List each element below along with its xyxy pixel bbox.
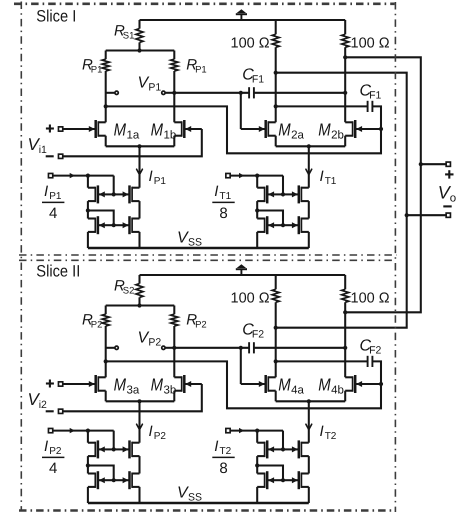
capacitor C_F1 left xyxy=(248,87,250,98)
wire M2a drain to cap C_F1 right xyxy=(274,104,278,108)
wire I_P1/4 right col xyxy=(138,201,140,218)
svg-text:P1: P1 xyxy=(49,191,62,202)
node pair1 tail xyxy=(137,144,141,148)
wire pair2 source rail xyxy=(276,400,346,402)
label + input slice 1 xyxy=(46,127,54,129)
wire I_T2/8 left col mid xyxy=(256,456,258,465)
wire I_P1/4 gate tie row2 xyxy=(88,211,114,226)
svg-text:M: M xyxy=(151,119,164,139)
wire I_T2/8 left source to VSS xyxy=(256,487,258,503)
node under R_S2 xyxy=(137,303,141,307)
wire Vo+ stub xyxy=(421,163,446,165)
svg-text:I: I xyxy=(149,423,153,440)
wire I_P2/4 gate tie row1 xyxy=(113,431,115,450)
border slice I bottom xyxy=(19,254,397,256)
arrow I_P1/4 input current xyxy=(70,173,75,178)
transistor I_P2/4 cascode right xyxy=(114,448,129,450)
svg-text:P2: P2 xyxy=(154,431,167,442)
wire V_i1 minus to Mb gate xyxy=(63,129,202,156)
svg-text:Slice I: Slice I xyxy=(36,7,76,25)
wire tail I_P2 xyxy=(138,401,140,442)
wire V_i2 minus to Mb gate xyxy=(63,384,202,411)
wire tail I_T1 xyxy=(308,146,310,187)
node I_P1/4 mid xyxy=(86,208,90,212)
wire I_P2/4 gate tie row2 xyxy=(88,466,114,481)
wire I_P2/4 right source to VSS xyxy=(138,487,140,503)
svg-text:8: 8 xyxy=(219,460,227,477)
wire I_P2/4 right col xyxy=(138,456,140,473)
transistor I_P2/4 cascode left xyxy=(99,448,114,450)
wire I_T2/8 gate tie row1 xyxy=(282,431,284,450)
svg-text:M: M xyxy=(318,374,331,394)
resistor R_P2 right xyxy=(173,306,175,315)
wire I_T1/8 gate tie row2 xyxy=(257,211,283,226)
arrow I_P1 xyxy=(137,169,143,174)
wire I_P1/4 right source to VSS xyxy=(138,232,140,248)
wire I_P1/4 gate tie row1 xyxy=(113,176,115,195)
wire I_T1/8 right col xyxy=(308,201,310,218)
transistor M_3b xyxy=(185,383,202,385)
arrow I_T1/8 input current xyxy=(239,173,244,178)
node pair2 tail xyxy=(307,399,311,403)
svg-text:2b: 2b xyxy=(331,129,344,141)
wire output bus minus (M2a/M4a drains to Vo-) xyxy=(276,73,407,328)
node M2b gate xyxy=(379,127,383,131)
node V_P1 probe left xyxy=(106,92,115,94)
capacitor C_F1 right xyxy=(367,101,369,112)
svg-text:I: I xyxy=(214,438,218,455)
node I_T2/8 input xyxy=(255,429,259,433)
svg-text:I: I xyxy=(44,438,48,455)
svg-text:100 Ω: 100 Ω xyxy=(351,290,390,306)
svg-text:3a: 3a xyxy=(127,384,140,396)
wire cap C_F2 left to M2b drain xyxy=(254,347,345,349)
transistor M_1b xyxy=(185,128,202,130)
node V_P2 probe left xyxy=(106,347,115,349)
svg-text:I: I xyxy=(149,168,153,185)
wire Mb source xyxy=(173,391,175,402)
wire tail I_P1 xyxy=(138,146,140,187)
svg-text:T1: T1 xyxy=(220,191,232,202)
svg-text:M: M xyxy=(278,374,291,394)
node I_T2/8 mid xyxy=(255,463,259,467)
transistor I_T1/8 cascode left xyxy=(268,193,283,195)
resistor 100ohm left slice 1 xyxy=(275,20,277,34)
transistor M_3a xyxy=(63,383,95,385)
transistor I_T1/8 cascode right xyxy=(283,193,298,195)
capacitor C_F2 left xyxy=(248,342,250,353)
node V_P2 probe right xyxy=(165,347,174,349)
svg-text:P2: P2 xyxy=(148,337,161,349)
wire V_P2 right to cap C_F2 left xyxy=(172,346,176,350)
wire I_T2/8 right col xyxy=(308,456,310,473)
svg-text:8: 8 xyxy=(219,205,227,222)
node under R_S1 xyxy=(137,48,141,52)
label + input slice 2 xyxy=(46,382,54,384)
wire M2b source xyxy=(344,391,346,402)
wire output bus plus (M2b/M4b drains to Vo+) xyxy=(345,57,421,312)
svg-text:M: M xyxy=(151,374,164,394)
resistor R_S2 xyxy=(138,275,140,284)
svg-text:o: o xyxy=(450,193,456,205)
supply rail slice 2 xyxy=(140,274,346,276)
terminal V_i2 minus xyxy=(58,409,62,413)
svg-text:i1: i1 xyxy=(39,144,47,156)
terminal V_i1 plus xyxy=(58,127,62,131)
svg-text:M: M xyxy=(278,119,291,139)
resistor 100ohm right slice 2 xyxy=(344,275,346,289)
svg-text:T2: T2 xyxy=(220,446,232,457)
wire I_T1/8 left source to VSS xyxy=(256,232,258,248)
wire I_P2/4 left source to VSS xyxy=(87,487,89,503)
svg-text:M: M xyxy=(114,374,127,394)
node M2a gate tap xyxy=(239,346,243,350)
supply rail slice 1 xyxy=(140,19,346,21)
node M2b drain out xyxy=(343,55,347,59)
svg-text:4b: 4b xyxy=(331,384,344,396)
arrow I_T2/8 input current xyxy=(239,428,244,433)
svg-text:I: I xyxy=(320,168,324,185)
wire Vo- stub xyxy=(407,214,446,216)
wire I_P2/4 left col mid xyxy=(87,456,89,465)
node V_P1 probe right xyxy=(165,92,174,94)
arrow I_T2 xyxy=(306,424,312,429)
svg-text:T1: T1 xyxy=(325,176,337,187)
svg-text:I: I xyxy=(44,183,48,200)
wire I_T1/8 input xyxy=(230,175,283,177)
resistor R_P1 left xyxy=(105,51,107,60)
wire pair1 source rail xyxy=(106,145,175,147)
wire Ma source xyxy=(105,136,107,147)
svg-text:4: 4 xyxy=(49,460,57,477)
node Vo+ tap xyxy=(419,162,423,166)
svg-text:T2: T2 xyxy=(325,431,337,442)
node pair1 tail xyxy=(137,399,141,403)
node pair2 tail xyxy=(307,144,311,148)
svg-text:S1: S1 xyxy=(123,30,135,41)
node I_P2/4 mid xyxy=(86,463,90,467)
wire I_P1/4 left source to VSS xyxy=(87,232,89,248)
svg-text:100 Ω: 100 Ω xyxy=(231,290,270,306)
svg-text:Slice II: Slice II xyxy=(36,262,80,280)
terminal I_P1/4 input xyxy=(48,173,52,177)
wire I_T1/8 right source to VSS xyxy=(308,232,310,248)
svg-text:M: M xyxy=(114,119,127,139)
node I_P2/4 input xyxy=(86,429,90,433)
svg-text:F1: F1 xyxy=(252,73,264,85)
terminal V_i1 minus xyxy=(58,154,62,158)
transistor I_P1/4 cascode left xyxy=(99,193,114,195)
border outer top xyxy=(14,2,395,5)
transistor I_P2/4 mirror left xyxy=(99,479,114,481)
terminal Vo+ xyxy=(446,162,450,166)
transistor M_2b xyxy=(356,128,381,130)
border outer right xyxy=(394,2,396,512)
terminal I_T1/8 input xyxy=(226,173,230,177)
transistor I_P2/4 mirror right xyxy=(114,479,129,481)
wire I_T2/8 input xyxy=(230,430,283,432)
wire R_P top link xyxy=(106,304,175,306)
power VDD symbol slice 1 xyxy=(240,14,242,20)
svg-text:1a: 1a xyxy=(127,129,140,141)
wire cap C_F1 left to M2b drain xyxy=(254,92,345,94)
arrow I_P2/4 input current xyxy=(70,428,75,433)
power VDD symbol slice 2 xyxy=(240,269,242,275)
net VSS rail slice 1 xyxy=(88,247,309,250)
svg-text:I: I xyxy=(320,423,324,440)
svg-text:SS: SS xyxy=(188,236,202,248)
wire I_P2/4 input xyxy=(53,430,114,432)
wire R_P top link xyxy=(106,49,175,51)
svg-text:P2: P2 xyxy=(195,319,207,330)
transistor I_P1/4 cascode right xyxy=(114,193,129,195)
svg-text:2a: 2a xyxy=(291,129,304,141)
wire Mb source xyxy=(173,136,175,147)
svg-text:100 Ω: 100 Ω xyxy=(231,35,270,51)
wire I_T2/8 right source to VSS xyxy=(308,487,310,503)
wire I_T1/8 left drain xyxy=(256,176,258,188)
node M2b gate xyxy=(379,382,383,386)
transistor I_T1/8 mirror left xyxy=(268,224,283,226)
svg-text:P1: P1 xyxy=(195,64,207,75)
svg-text:P1: P1 xyxy=(154,176,167,187)
wire I_P1/4 input xyxy=(53,175,114,177)
svg-text:I: I xyxy=(214,183,218,200)
node M2b drain out xyxy=(343,310,347,314)
wire pair2 source rail xyxy=(276,145,346,147)
svg-text:P1: P1 xyxy=(91,64,103,75)
svg-text:4: 4 xyxy=(49,205,57,222)
wire I_P1/4 left drain xyxy=(87,176,89,188)
label + output xyxy=(445,173,453,175)
transistor I_P1/4 mirror left xyxy=(99,224,114,226)
transistor I_T2/8 mirror right xyxy=(283,479,298,481)
label - output xyxy=(443,205,451,207)
terminal I_T2/8 input xyxy=(226,428,230,432)
wire I_T2/8 left drain xyxy=(256,431,258,443)
transistor M_4a xyxy=(241,383,265,385)
transistor I_T2/8 cascode left xyxy=(268,448,283,450)
svg-text:F2: F2 xyxy=(369,345,381,357)
net VSS rail slice 2 xyxy=(88,502,309,505)
svg-text:F2: F2 xyxy=(252,328,264,340)
transistor I_T2/8 mirror left xyxy=(268,479,283,481)
wire pair1 source rail xyxy=(106,400,175,402)
resistor 100ohm left slice 2 xyxy=(275,275,277,289)
transistor M_2a xyxy=(241,128,265,130)
node I_T1/8 mid xyxy=(255,208,259,212)
wire tail I_T2 xyxy=(308,401,310,442)
node Vo- tap xyxy=(405,213,409,217)
svg-text:i2: i2 xyxy=(39,399,47,411)
wire to M2a gate xyxy=(240,348,242,384)
svg-text:4a: 4a xyxy=(291,384,304,396)
svg-text:M: M xyxy=(318,119,331,139)
wire cap C_F2 right to M2b gate xyxy=(372,361,381,384)
wire M2a drain to cap C_F2 right xyxy=(274,359,278,363)
transistor M_4b xyxy=(356,383,381,385)
svg-text:F1: F1 xyxy=(369,90,381,102)
node M2a drain out xyxy=(274,326,278,330)
wire Ma source xyxy=(105,391,107,402)
wire M2b source xyxy=(344,136,346,147)
wire to M2a gate xyxy=(240,93,242,129)
wire I_T2/8 gate tie row2 xyxy=(257,466,283,481)
arrow I_P2 xyxy=(137,424,143,429)
wire Ma drain crossover to M2b gate slice 2 xyxy=(104,359,108,363)
svg-text:P2: P2 xyxy=(49,446,62,457)
wire V_P1 right to cap C_F1 left xyxy=(172,91,176,95)
svg-text:P1: P1 xyxy=(148,82,161,94)
svg-text:P2: P2 xyxy=(91,319,103,330)
resistor R_S1 xyxy=(138,20,140,29)
svg-text:100 Ω: 100 Ω xyxy=(351,35,390,51)
label - input slice 2 xyxy=(46,410,54,412)
wire cap C_F1 right to M2b gate xyxy=(372,106,381,129)
border slice II top xyxy=(19,259,396,261)
resistor 100ohm right slice 1 xyxy=(344,20,346,34)
node I_P1/4 input xyxy=(86,174,90,178)
terminal Vo- xyxy=(446,213,450,217)
wire I_T1/8 left col mid xyxy=(256,201,258,210)
terminal V_i2 plus xyxy=(58,382,62,386)
wire I_T1/8 gate tie row1 xyxy=(282,176,284,195)
resistor R_P1 right xyxy=(173,51,175,60)
terminal I_P2/4 input xyxy=(48,428,52,432)
svg-text:SS: SS xyxy=(188,491,202,503)
wire M2a source xyxy=(275,136,277,147)
transistor I_P1/4 mirror right xyxy=(114,224,129,226)
arrow I_T1 xyxy=(306,169,312,174)
border outer bottom xyxy=(19,509,396,512)
transistor M_1a xyxy=(63,128,95,130)
wire M2a source xyxy=(275,391,277,402)
transistor I_T1/8 mirror right xyxy=(283,224,298,226)
wire I_P1/4 left col mid xyxy=(87,201,89,210)
node M2a gate tap xyxy=(239,91,243,95)
wire I_P2/4 left drain xyxy=(87,431,89,443)
label - input slice 1 xyxy=(46,155,54,157)
svg-text:S2: S2 xyxy=(123,285,135,296)
resistor R_P2 left xyxy=(105,306,107,315)
transistor I_T2/8 cascode right xyxy=(283,448,298,450)
wire Ma drain crossover to M2b gate slice 1 xyxy=(104,104,108,108)
border outer left xyxy=(20,2,22,512)
node M2a drain out xyxy=(274,71,278,75)
node I_T1/8 input xyxy=(255,174,259,178)
capacitor C_F2 right xyxy=(367,356,369,367)
